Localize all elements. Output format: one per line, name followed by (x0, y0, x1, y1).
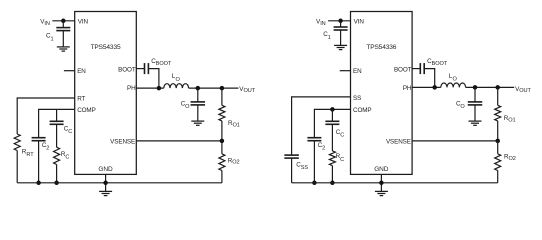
wire output to CO (TPS54335) (197, 88, 199, 102)
wire C1 top lead (340, 21, 342, 27)
svg-text:O: O (460, 104, 465, 110)
svg-text:VSENSE: VSENSE (110, 138, 135, 145)
svg-text:BOOT: BOOT (432, 61, 448, 67)
wire RRT to ground rail (16, 151, 18, 183)
capacitor CBOOT (TPS54336) (420, 63, 424, 74)
junction CBOOT / PH (TPS54335) (157, 86, 162, 91)
svg-text:PH: PH (403, 85, 412, 92)
wire VOUT to RO1 (TPS54336) (497, 87, 499, 105)
wire EN stub (TPS54336) (340, 70, 351, 72)
wire C1 to ground (TPS54336) (340, 30, 342, 45)
svg-text:SS: SS (301, 165, 309, 171)
svg-text:2: 2 (46, 145, 49, 151)
svg-text:COMP: COMP (77, 107, 96, 114)
wire ground rail (TPS54336) (292, 182, 498, 184)
svg-text:SS: SS (353, 95, 361, 102)
junction VIN / C1 (61, 19, 66, 24)
svg-text:O: O (453, 77, 458, 83)
resistor RO1 (TPS54336) (495, 105, 501, 121)
resistor RC (TPS54335) (54, 147, 60, 164)
junction C2 / rail (TPS54336) (312, 181, 317, 186)
junction VIN / C1 (338, 19, 343, 24)
junction RC / rail (TPS54336) (330, 181, 335, 186)
inductor LO (TPS54336) (441, 83, 466, 87)
wire output to CO (TPS54336) (474, 87, 476, 102)
wire C1 to ground (TPS54335) (62, 31, 64, 47)
resistor RO2 (TPS54336) (495, 154, 501, 171)
wire COMP to CC (TPS54335) (56, 109, 58, 121)
wire CO to ground (TPS54335) (197, 105, 199, 121)
junction C2 / rail (TPS54335) (36, 181, 41, 186)
svg-text:IN: IN (44, 21, 49, 27)
svg-text:IN: IN (320, 21, 325, 27)
junction CO / output (TPS54335) (196, 86, 201, 91)
junction RO1 / output (TPS54335) (220, 86, 225, 91)
svg-text:TPS54336: TPS54336 (366, 44, 396, 51)
svg-text:VIN: VIN (78, 18, 89, 25)
svg-text:1: 1 (51, 36, 54, 42)
wire BOOT pin to CBOOT (TPS54336) (412, 68, 420, 70)
wire CBOOT to PH node (TPS54335) (148, 69, 159, 89)
wire RO1 to VSENSE node (TPS54335) (221, 121, 223, 141)
junction RO1 / output (TPS54336) (495, 85, 500, 90)
junction VSENSE / divider (TPS54336) (495, 139, 500, 144)
wire VSENSE pin to divider (TPS54336) (412, 140, 498, 142)
resistor RC (TPS54336) (329, 151, 335, 166)
op-amp/IC U1 TPS54335 (75, 12, 137, 175)
wire RO2 to ground rail (TPS54336) (497, 171, 499, 183)
wire CSS to ground rail (291, 158, 293, 183)
wire VIN input to pin VIN (52, 20, 74, 22)
wire SS pin to CSS (292, 97, 351, 155)
wire COMP to CC (TPS54336) (331, 109, 333, 121)
svg-text:OUT: OUT (519, 88, 531, 94)
wire GND pin to ground (TPS54336) (380, 174, 382, 191)
resistor RRT (14, 134, 20, 151)
svg-text:O1: O1 (508, 117, 515, 123)
ground symbol at CO (TPS54335) (191, 121, 204, 125)
svg-text:RT: RT (77, 95, 85, 102)
wire ground rail (TPS54335) (17, 182, 222, 184)
capacitor C1 (TPS54336) (334, 27, 348, 30)
wire EN stub (TPS54335) (64, 70, 75, 72)
junction CBOOT / PH (TPS54336) (432, 85, 437, 90)
svg-text:BOOT: BOOT (394, 66, 412, 73)
junction CO / output (TPS54336) (473, 85, 478, 90)
capacitor C1 (TPS54335) (56, 28, 70, 31)
wire RC to ground rail (TPS54336) (331, 166, 333, 183)
junction COMP / CC (TPS54336) (330, 107, 335, 112)
svg-text:BOOT: BOOT (156, 61, 172, 67)
capacitor CBOOT (TPS54335) (145, 63, 149, 74)
svg-text:GND: GND (374, 166, 389, 173)
wire VSENSE to RO2 (TPS54336) (497, 141, 499, 154)
svg-text:RT: RT (26, 152, 34, 158)
svg-text:PH: PH (127, 85, 136, 92)
wire LO to VOUT (TPS54335) (189, 87, 239, 89)
wire C1 top lead (62, 21, 64, 28)
svg-text:VSENSE: VSENSE (386, 138, 411, 145)
svg-text:OUT: OUT (244, 88, 256, 94)
wire GND pin to ground (TPS54335) (105, 174, 107, 191)
wire COMP pin to C2 (TPS54335) (39, 109, 75, 137)
svg-text:O2: O2 (232, 160, 239, 166)
svg-text:1: 1 (328, 35, 331, 41)
wire LO to VOUT (TPS54336) (466, 86, 515, 88)
capacitor CSS (284, 155, 299, 158)
svg-text:C: C (340, 157, 344, 163)
capacitor CC (TPS54335) (50, 121, 64, 124)
junction VSENSE / divider (TPS54335) (220, 139, 225, 144)
svg-text:GND: GND (98, 166, 113, 173)
wire RO2 to ground rail (TPS54335) (221, 171, 223, 183)
wire RC to ground rail (TPS54335) (56, 165, 58, 183)
wire RO1 to VSENSE node (TPS54336) (497, 121, 499, 141)
resistor RO1 (TPS54335) (219, 105, 225, 121)
ground symbol at GND pin (TPS54335) (99, 191, 112, 195)
wire VSENSE pin to divider (TPS54335) (136, 140, 222, 142)
wire CC to RC (TPS54336) (331, 124, 333, 151)
ground symbol at CO (TPS54336) (469, 121, 482, 125)
svg-text:O: O (176, 77, 181, 83)
wire PH pin to LO (TPS54336) (412, 86, 441, 88)
svg-text:BOOT: BOOT (118, 66, 136, 73)
wire BOOT pin to CBOOT (TPS54335) (136, 68, 144, 70)
svg-text:VIN: VIN (354, 18, 365, 25)
ground symbol at C1 (TPS54335) (57, 47, 70, 51)
wire CO to ground (TPS54336) (474, 105, 476, 121)
svg-text:2: 2 (322, 145, 325, 151)
capacitor CO (TPS54336) (468, 102, 483, 105)
wire CC to RC (TPS54335) (56, 124, 58, 147)
wire VIN input to pin VIN (328, 20, 350, 22)
wire C2 to ground rail (TPS54336) (313, 141, 315, 183)
svg-text:C: C (68, 129, 72, 135)
wire VSENSE to RO2 (TPS54335) (221, 141, 223, 154)
capacitor CC (TPS54336) (325, 121, 339, 124)
op-amp/IC U2 TPS54336 (351, 12, 413, 175)
ground symbol at C1 (TPS54336) (334, 45, 347, 49)
wire PH pin to LO (TPS54335) (136, 87, 164, 89)
capacitor C2 (TPS54336) (307, 138, 321, 141)
inductor LO (TPS54335) (164, 84, 189, 88)
svg-text:COMP: COMP (353, 107, 372, 114)
wire CBOOT to PH node (TPS54336) (424, 69, 435, 88)
svg-text:EN: EN (77, 68, 86, 75)
junction RC / rail (TPS54335) (54, 181, 59, 186)
svg-text:TPS54335: TPS54335 (91, 44, 121, 51)
resistor RO2 (TPS54335) (219, 154, 225, 171)
junction GND pin / rail (TPS54336) (379, 181, 384, 186)
svg-text:C: C (65, 155, 69, 161)
junction GND pin / rail (TPS54335) (103, 181, 108, 186)
wire COMP pin to C2 (TPS54336) (314, 109, 350, 137)
svg-text:O2: O2 (509, 156, 516, 162)
svg-text:O: O (185, 104, 190, 110)
capacitor C2 (TPS54335) (32, 138, 46, 141)
svg-text:O1: O1 (233, 123, 240, 129)
svg-text:C: C (340, 133, 344, 139)
ground symbol at GND pin (TPS54336) (375, 191, 388, 195)
wire VOUT to RO1 (TPS54335) (221, 88, 223, 105)
capacitor CO (TPS54335) (191, 102, 206, 105)
svg-text:EN: EN (353, 68, 362, 75)
wire RT pin to RRT (17, 98, 74, 134)
wire C2 to ground rail (TPS54335) (38, 141, 40, 183)
